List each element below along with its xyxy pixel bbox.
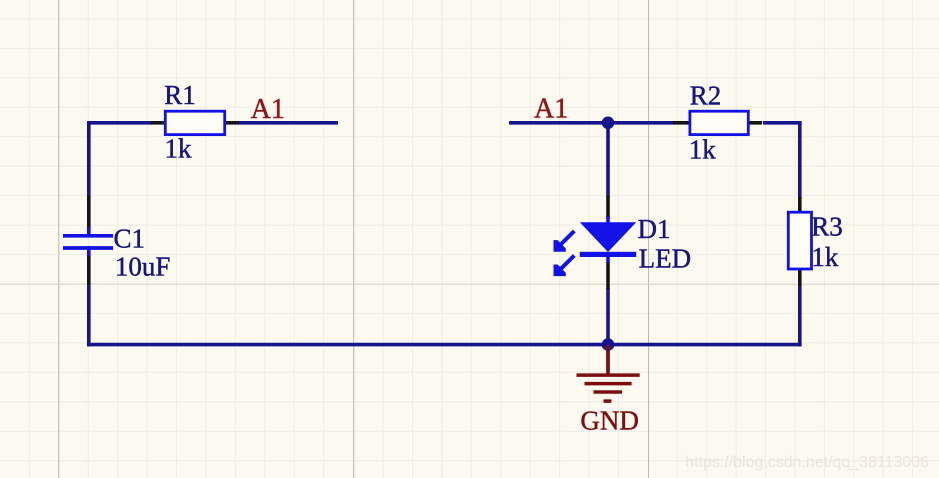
svg-text:1k: 1k (811, 242, 839, 272)
pin R3 bottom (798, 270, 802, 287)
ground symbol stem (606, 345, 610, 375)
svg-text:A1: A1 (251, 94, 285, 125)
resistor R3 body (788, 212, 811, 269)
resistor R2 body (690, 111, 748, 134)
svg-text:GND: GND (580, 405, 639, 435)
pin R2 left (673, 121, 690, 125)
wire: left vertical below cap (87, 283, 91, 346)
wire: left net label segment (238, 121, 338, 125)
svg-text:1k: 1k (165, 133, 193, 163)
pin D1 top (606, 196, 610, 218)
pin R3 top (798, 197, 802, 213)
wire: right vertical lower (798, 285, 802, 346)
pin R1 right (225, 121, 239, 125)
svg-text:R2: R2 (690, 80, 722, 110)
LED D1 cathode bar (580, 252, 636, 257)
LED D1 triangle (580, 222, 636, 252)
grid semi-major horizontal line (0, 283, 939, 285)
pin C1 bottom (87, 256, 91, 285)
svg-text:https://blog.csdn.net/qq_38113: https://blog.csdn.net/qq_38113006 (685, 454, 929, 471)
wire: left net top horizontal (87, 121, 152, 125)
pin D1 anode nub (606, 216, 610, 223)
wire: LED branch upper (606, 123, 610, 197)
svg-text:1k: 1k (689, 134, 717, 164)
pin C1 bottom nub (87, 246, 91, 256)
pin R2 right (749, 121, 762, 125)
ground symbol bars (577, 375, 640, 401)
wire: LED branch lower (606, 288, 610, 345)
svg-text:LED: LED (639, 244, 691, 274)
grid major lines (59, 0, 649, 478)
LED D1 emission arrow 1 (554, 231, 575, 252)
pin C1 top nub (87, 227, 91, 237)
svg-text:A1: A1 (534, 94, 568, 125)
LED D1 emission arrow 2 (554, 256, 575, 277)
junction dot bottom (602, 338, 615, 351)
wire: right vertical upper (798, 121, 802, 198)
pin D1 cathode nub (606, 256, 610, 263)
capacitor C1 plates (63, 236, 113, 248)
svg-text:10uF: 10uF (115, 252, 171, 282)
wire: right net horizontal (509, 121, 673, 125)
resistor R1 body (165, 111, 224, 134)
wire: bottom horizontal (87, 343, 802, 347)
pin C1 top (87, 196, 91, 229)
svg-text:C1: C1 (114, 224, 146, 254)
wire: left vertical (87, 121, 91, 197)
pin R1 left (151, 121, 165, 125)
svg-text:R3: R3 (811, 212, 843, 242)
svg-text:D1: D1 (638, 214, 671, 244)
pin D1 bottom (606, 262, 610, 289)
wire: R2 to corner (763, 121, 802, 125)
svg-text:R1: R1 (164, 80, 196, 110)
junction dot top (602, 117, 615, 130)
